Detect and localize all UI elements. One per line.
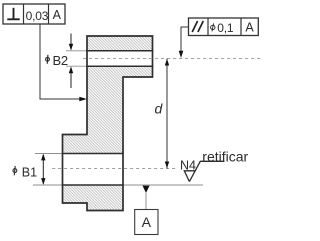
perpendicularity symbol <box>13 8 15 19</box>
datum A extension line right <box>124 184 203 186</box>
centerline of bore B2 <box>83 58 263 60</box>
label phi B2 <box>46 53 68 68</box>
label phi B1 <box>13 165 37 179</box>
leader arrowhead on B2 centerline <box>179 51 184 58</box>
svg-text:0,1: 0,1 <box>217 21 234 35</box>
parallelism symbol <box>192 21 197 32</box>
feature control frame U1: perpendicularity 0,03 A <box>3 4 65 24</box>
bore B1 top edge <box>62 153 124 155</box>
svg-text:A: A <box>245 21 254 35</box>
centerline of bore B1 <box>52 168 176 170</box>
leader of perpendicularity frame <box>40 24 81 99</box>
svg-text:N4: N4 <box>180 159 196 173</box>
part cross-section hatched body <box>63 36 153 211</box>
extension line B2 lower <box>66 65 86 67</box>
datum leader <box>145 193 147 210</box>
bore B2 top edge <box>86 50 153 52</box>
dimension phi B2: lower arrow <box>70 72 72 88</box>
bore B2 bottom edge <box>86 65 153 67</box>
extension line B1 lower / datum A extension left <box>33 184 62 186</box>
datum triangle on surface <box>143 186 150 193</box>
svg-text:retificar: retificar <box>202 148 248 164</box>
leader arrowhead at part left face <box>79 97 87 102</box>
extension line B1 upper <box>35 153 62 155</box>
dimension phi B2: upper arrow <box>70 34 72 46</box>
surface finish symbol N4 retificar <box>180 148 249 181</box>
leader of parallelism frame <box>181 27 188 52</box>
datum A symbol <box>135 186 158 235</box>
svg-text:A: A <box>53 8 62 22</box>
svg-text:0,03: 0,03 <box>26 9 49 23</box>
datum letter box <box>135 210 158 235</box>
dimension phi B1 arrow line <box>42 155 44 184</box>
svg-text:B2: B2 <box>53 53 68 68</box>
diameter symbol of 0,1 <box>211 25 215 29</box>
extension line B2 upper <box>66 50 86 52</box>
svg-text:A: A <box>142 214 152 230</box>
svg-text:d: d <box>155 101 164 117</box>
svg-text:B1: B1 <box>22 165 37 179</box>
part outline <box>63 36 153 211</box>
dimension d line <box>166 59 168 169</box>
bore B1 bottom edge (datum A surface) <box>62 184 124 186</box>
feature control frame U2: parallelism dia 0,1 A <box>189 18 259 36</box>
